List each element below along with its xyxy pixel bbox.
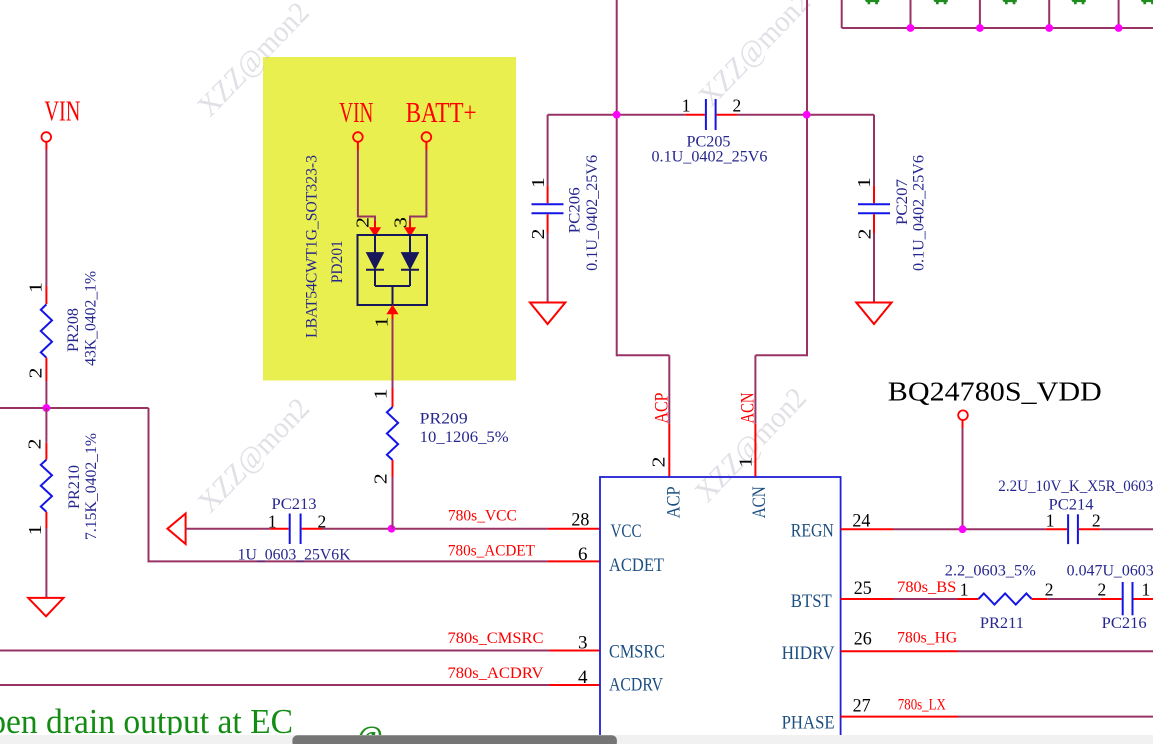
capacitor PC207 <box>858 203 890 205</box>
off-page connector arrow VCC <box>168 514 186 545</box>
wire PR211 to PC216 <box>1047 598 1100 600</box>
resistor PR210 pin 2 stub <box>45 443 47 460</box>
resistor PR208 <box>41 304 52 357</box>
REGN pin 24 stub <box>841 528 893 530</box>
green symbol fragment 1 <box>865 0 879 4</box>
svg-text:PR210: PR210 <box>66 465 83 509</box>
capacitor PC205 pin 2 stub <box>717 114 738 116</box>
svg-text:CMSRC: CMSRC <box>609 642 665 663</box>
resistor PR209 pin 1 stub <box>392 388 394 407</box>
svg-text:VCC: VCC <box>611 521 642 542</box>
svg-text:PC213: PC213 <box>272 496 317 513</box>
node junction VCC/PR209 <box>388 525 396 533</box>
wire node to left edge <box>0 407 149 409</box>
svg-text:HIDRV: HIDRV <box>782 643 835 664</box>
svg-text:1U_0603_25V6K: 1U_0603_25V6K <box>238 547 352 564</box>
wire PC207 to ground <box>873 233 875 303</box>
svg-text:2: 2 <box>733 95 742 115</box>
svg-text:26: 26 <box>854 629 872 650</box>
wire ACP jog <box>617 354 670 356</box>
wire REGN net to right edge <box>1100 528 1153 530</box>
capacitor PC214 <box>1067 514 1069 544</box>
svg-text:REGN: REGN <box>791 521 834 542</box>
wire BTST to PR211 <box>893 598 958 600</box>
wire top-right bus horizontal <box>842 27 1153 29</box>
PD201 common cathode join <box>375 285 410 287</box>
svg-text:VIN: VIN <box>339 98 373 129</box>
capacitor PC205 pin 1 stub <box>685 114 705 116</box>
wire PC206 to ground <box>547 233 549 303</box>
CMSRC pin 3 stub <box>550 650 601 652</box>
scrollbar track <box>0 735 1153 744</box>
node junction top-right 3 <box>1045 24 1053 32</box>
node junction ACP/PC205 <box>613 111 621 119</box>
green symbol fragment 2 <box>933 0 947 4</box>
svg-text:2: 2 <box>24 439 44 450</box>
svg-text:780s_HG: 780s_HG <box>897 629 957 646</box>
svg-text:PC216: PC216 <box>1102 615 1147 632</box>
node junction top-right 1 <box>907 24 915 32</box>
svg-text:BTST: BTST <box>791 591 832 612</box>
wire top-right stub 3 <box>1048 0 1050 28</box>
node junction REGN/VDD <box>959 525 967 533</box>
wire ACP vertical from top <box>616 0 618 356</box>
wire top-right stub 2 <box>979 0 981 28</box>
wire ACN jog <box>755 354 807 356</box>
svg-text:1: 1 <box>268 511 277 531</box>
svg-text:7.15K_0402_1%: 7.15K_0402_1% <box>83 433 100 540</box>
svg-text:0.1U_0402_25V6: 0.1U_0402_25V6 <box>652 148 768 165</box>
wire top-right stub 4 <box>1118 0 1120 28</box>
wire PR209 to VCC node <box>392 477 394 529</box>
svg-text:10_1206_5%: 10_1206_5% <box>420 429 509 446</box>
svg-text:25: 25 <box>854 578 872 599</box>
svg-text:PC207: PC207 <box>894 179 911 225</box>
wire PC205 to PC207 branch <box>737 114 874 116</box>
ACP pin 2 stub <box>668 424 670 477</box>
wire BATT+ to PD201 pin 3 <box>425 142 427 150</box>
svg-text:ACN: ACN <box>749 486 770 518</box>
svg-text:1: 1 <box>736 457 756 468</box>
svg-text:0.1U_0402_25V6: 0.1U_0402_25V6 <box>911 155 928 271</box>
svg-text:0.1U_0402_25V6: 0.1U_0402_25V6 <box>584 155 601 271</box>
capacitor PC216 pin 1 stub <box>1134 598 1153 600</box>
wire HIDRV net to right edge <box>958 650 1153 652</box>
svg-text:1: 1 <box>1142 580 1151 600</box>
wire REGN to PC214 <box>893 528 1046 530</box>
svg-text:PD201: PD201 <box>329 240 346 283</box>
diode A of PD201 <box>374 235 376 253</box>
IC U-BQ24780S body <box>600 477 841 744</box>
resistor PR209 <box>387 407 398 460</box>
capacitor PC214 pin 2 stub <box>1079 528 1100 530</box>
svg-text:3: 3 <box>390 217 410 228</box>
wire top-right stub 1 <box>910 0 912 28</box>
capacitor PC206 pin 2 stub <box>547 214 549 233</box>
capacitor PC213 <box>289 514 291 545</box>
svg-text:2: 2 <box>1092 510 1101 530</box>
svg-text:PC214: PC214 <box>1049 497 1094 514</box>
capacitor PC207 pin 1 stub <box>873 186 875 204</box>
power symbol BATT+ <box>422 132 432 142</box>
svg-text:2: 2 <box>1045 580 1054 600</box>
capacitor PC216 pin 2 stub <box>1100 598 1121 600</box>
ACDRV pin 4 stub <box>550 684 601 686</box>
svg-text:1: 1 <box>371 317 391 328</box>
svg-text:2: 2 <box>1098 580 1107 600</box>
resistor PR210 pin 1 stub <box>45 512 47 528</box>
ground symbol below PR210 <box>28 598 63 616</box>
svg-text:780s_ACDRV: 780s_ACDRV <box>448 665 545 682</box>
highlight box <box>263 57 516 381</box>
svg-text:PC206: PC206 <box>566 187 583 233</box>
svg-text:1: 1 <box>528 177 548 188</box>
wire PC213 to node <box>322 528 548 530</box>
wire PHASE net to right edge <box>958 716 1153 718</box>
power symbol VIN (left) <box>42 132 52 142</box>
PD201 pin 1 arrowhead <box>387 306 397 314</box>
svg-text:3: 3 <box>578 633 588 654</box>
PD201 pin 2 arrowhead <box>370 228 380 236</box>
svg-text:4: 4 <box>578 667 588 688</box>
capacitor PC213 pin 1 stub <box>270 528 288 530</box>
scrollbar thumb <box>292 735 617 744</box>
svg-text:780s_ACDET: 780s_ACDET <box>448 542 536 559</box>
svg-text:24: 24 <box>852 510 870 531</box>
ground symbol below PC206 <box>530 303 565 325</box>
svg-text:1: 1 <box>370 389 390 400</box>
wire VDD to REGN node <box>962 420 964 428</box>
wire node to PR210 <box>45 408 47 443</box>
diode B of PD201 <box>409 235 411 253</box>
green symbol fragment 4 <box>1071 0 1085 4</box>
svg-text:6: 6 <box>578 544 588 565</box>
ACDET pin 6 stub <box>548 560 600 562</box>
svg-text:2: 2 <box>528 229 548 240</box>
svg-text:1: 1 <box>960 580 969 600</box>
svg-text:2: 2 <box>370 473 390 484</box>
svg-text:780s_CMSRC: 780s_CMSRC <box>448 630 544 647</box>
wire PD201 to PR209 <box>392 319 394 388</box>
svg-text:2: 2 <box>25 368 45 379</box>
svg-text:27: 27 <box>853 696 871 717</box>
capacitor PC205 <box>705 99 707 130</box>
resistor PR208 pin 1 stub <box>45 286 47 304</box>
svg-text:0.047U_0603: 0.047U_0603 <box>1067 562 1153 579</box>
wire PC205 net horizontal <box>548 114 686 116</box>
svg-text:1: 1 <box>682 95 691 115</box>
power symbol VIN (in box) <box>353 132 363 142</box>
svg-text:2: 2 <box>649 457 669 468</box>
wire down to PC206 <box>547 115 549 186</box>
capacitor PC213 pin 2 stub <box>302 528 322 530</box>
svg-text:BATT+: BATT+ <box>406 98 477 129</box>
wire VIN to PR208 <box>45 142 47 150</box>
svg-text:LBAT54CWT1G_SOT323-3: LBAT54CWT1G_SOT323-3 <box>303 155 320 338</box>
VCC pin 28 stub <box>548 528 600 530</box>
svg-text:XZZ@mon2: XZZ@mon2 <box>692 0 816 113</box>
PD201 pin 3 arrowhead <box>405 228 415 236</box>
svg-text:ACP: ACP <box>663 486 684 518</box>
wire PR210 to ground <box>45 528 47 598</box>
node junction top-right 4 <box>1115 24 1123 32</box>
svg-text:ACDET: ACDET <box>609 555 664 576</box>
wire top-right corner up <box>841 0 843 28</box>
resistor PR211 <box>979 593 1032 604</box>
wire arrow to PC213 <box>186 528 271 530</box>
HIDRV pin 26 stub <box>841 650 958 652</box>
svg-text:2: 2 <box>352 217 372 228</box>
svg-text:PHASE: PHASE <box>782 712 835 733</box>
resistor PR211 pin 1 stub <box>958 598 979 600</box>
svg-text:43K_0402_1%: 43K_0402_1% <box>82 271 99 366</box>
BTST pin 25 stub <box>841 598 893 600</box>
svg-text:780s_LX: 780s_LX <box>898 696 946 713</box>
resistor PR209 pin 2 stub <box>392 460 394 477</box>
svg-text:28: 28 <box>571 510 589 531</box>
PHASE pin 27 stub <box>841 716 958 718</box>
node junction top-right 2 <box>976 24 984 32</box>
wire ACN vertical from top <box>806 0 808 356</box>
svg-text:PR208: PR208 <box>65 308 82 352</box>
svg-text:BQ24780S_VDD: BQ24780S_VDD <box>888 377 1102 407</box>
wire VIN to PD201 pin 2 <box>357 142 359 150</box>
node junction ACN/PC205 <box>803 111 811 119</box>
resistor PR210 <box>41 460 52 512</box>
green symbol fragment 3 <box>1002 0 1016 4</box>
capacitor PC206 pin 1 stub <box>547 186 549 204</box>
capacitor PC206 <box>532 203 564 205</box>
wire down to PC207 <box>873 115 875 186</box>
svg-text:780s_BS: 780s_BS <box>897 579 956 596</box>
svg-text:2: 2 <box>854 229 874 240</box>
svg-text:2.2U_10V_K_X5R_0603: 2.2U_10V_K_X5R_0603 <box>998 478 1153 495</box>
resistor PR208 pin 2 stub <box>45 358 47 381</box>
svg-text:ACP: ACP <box>652 393 673 424</box>
dual diode PD201 body <box>358 235 428 305</box>
wire CMSRC net <box>0 650 550 652</box>
capacitor PC214 pin 1 stub <box>1046 528 1067 530</box>
svg-text:1: 1 <box>854 177 874 188</box>
svg-text:VIN: VIN <box>44 96 80 127</box>
svg-text:ACDRV: ACDRV <box>609 674 663 695</box>
green symbol fragment 5 <box>1141 0 1153 4</box>
ACN pin 1 stub <box>754 424 756 477</box>
svg-text:1: 1 <box>25 282 45 293</box>
resistor PR211 pin 2 stub <box>1032 598 1047 600</box>
svg-text:ACN: ACN <box>738 392 759 423</box>
ground symbol below PC207 <box>856 303 891 325</box>
svg-text:780s_VCC: 780s_VCC <box>448 508 517 525</box>
capacitor PC207 pin 2 stub <box>873 214 875 233</box>
wire ACDRV net <box>0 684 550 686</box>
svg-text:1: 1 <box>25 525 45 536</box>
svg-text:2.2_0603_5%: 2.2_0603_5% <box>945 562 1036 579</box>
wire PR208 to node <box>45 381 47 408</box>
svg-text:PR209: PR209 <box>420 410 468 427</box>
wire ACDET net horizontal <box>149 560 548 562</box>
svg-text:PR211: PR211 <box>980 615 1024 632</box>
capacitor PC216 <box>1122 582 1124 615</box>
wire ACDET net vertical <box>148 408 150 562</box>
